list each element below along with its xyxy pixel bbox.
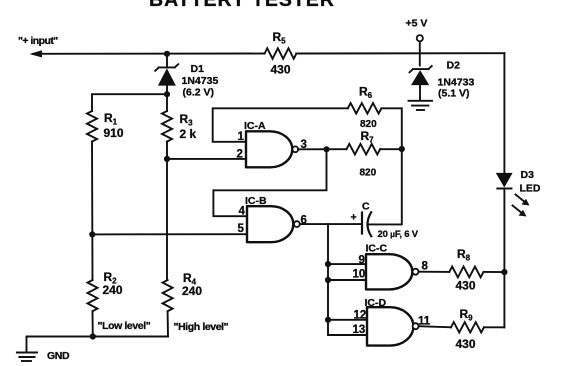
resistor R4 <box>163 280 173 311</box>
junction dot R8/LED <box>501 269 507 275</box>
svg-text:D2: D2 <box>447 60 461 72</box>
wire R9 right up to junction <box>484 326 504 328</box>
svg-text:IC-D: IC-D <box>365 297 387 309</box>
svg-text:IC-A: IC-A <box>244 120 266 132</box>
junction dot node X <box>399 146 405 152</box>
wire pin3 output <box>298 148 346 150</box>
junction dot pin3 <box>323 146 329 152</box>
svg-text:430: 430 <box>271 63 291 77</box>
wire pin1 lead and R6 loop riser <box>213 108 348 142</box>
diode D1 zener 1N4735 <box>155 64 178 85</box>
ground (D2) <box>409 101 433 110</box>
svg-text:"Low level": "Low level" <box>98 320 151 332</box>
wire +5V stem <box>419 42 421 66</box>
wire pin9 lead <box>328 263 366 265</box>
wire pin11 output <box>419 326 451 327</box>
svg-text:10: 10 <box>353 269 366 281</box>
gate IC-B nand <box>247 206 300 242</box>
wire LED cathode down to R8 junction and R9 corner <box>503 189 505 328</box>
svg-text:1N4735: 1N4735 <box>182 75 219 87</box>
resistor R7 <box>347 144 381 155</box>
svg-text:LED: LED <box>520 183 541 195</box>
svg-text:13: 13 <box>353 324 366 336</box>
diode D2 zener 1N4733 <box>410 66 432 100</box>
resistor R9 <box>451 322 484 332</box>
junction dot R1/R2 <box>89 231 95 237</box>
svg-text:(6.2 V): (6.2 V) <box>183 86 215 98</box>
wire pin12 lead <box>328 319 367 321</box>
wire feedback pin3 to pin4 <box>213 149 326 216</box>
svg-text:(5.1 V): (5.1 V) <box>438 88 470 100</box>
svg-text:240: 240 <box>103 283 123 297</box>
wire R6 right to node X <box>381 108 401 149</box>
resistor R3 <box>162 111 172 142</box>
wire pin8 output <box>419 271 450 273</box>
wire R2 bottom <box>92 312 94 337</box>
resistor R1 <box>87 111 97 142</box>
svg-text:+: + <box>351 212 357 224</box>
gate IC-C nand <box>366 254 419 289</box>
svg-text:20 μF, 6 V: 20 μF, 6 V <box>378 229 419 240</box>
svg-text:+5 V: +5 V <box>406 18 428 30</box>
junction dot R3 bottom <box>164 156 170 162</box>
junction dot pin10 <box>325 277 331 283</box>
svg-text:9: 9 <box>359 255 365 267</box>
svg-text:2: 2 <box>237 149 243 161</box>
junction dot D1 top <box>164 51 170 57</box>
capacitor C <box>362 212 371 236</box>
svg-text:IC-C: IC-C <box>366 243 388 255</box>
junction dot bottom rail <box>90 333 96 339</box>
svg-text:8: 8 <box>422 261 429 273</box>
svg-text:430: 430 <box>456 279 476 293</box>
wire pin2 <box>167 158 246 160</box>
wire R4 bottom <box>167 312 169 337</box>
wire to R1 branch <box>92 94 167 111</box>
svg-text:2 k: 2 k <box>180 127 197 141</box>
node +5V terminal <box>417 35 423 41</box>
ground GND <box>17 337 37 362</box>
svg-text:5: 5 <box>238 223 245 235</box>
junction dot pin12 <box>325 317 331 323</box>
svg-text:GND: GND <box>47 350 70 362</box>
LED light arrows <box>513 195 530 217</box>
svg-text:D3: D3 <box>521 169 535 181</box>
svg-text:240: 240 <box>182 284 202 298</box>
wire R3 bottom to R4 <box>166 142 168 280</box>
junction dot D1 bottom <box>164 91 170 97</box>
wire D1 branch vertical <box>166 54 168 111</box>
junction dot pin9 <box>325 261 331 267</box>
wire R1 bottom to R2 <box>91 142 94 280</box>
wire R8 right to LED line <box>484 271 505 273</box>
LED D3 <box>496 173 513 189</box>
wire right edge down to LED <box>503 53 505 172</box>
wire bottom ground rail <box>27 336 169 338</box>
gate IC-D nand <box>367 307 419 345</box>
wire input arrowhead <box>30 50 43 57</box>
svg-text:D1: D1 <box>191 63 205 75</box>
svg-text:BATTERY TESTER: BATTERY TESTER <box>149 0 335 11</box>
wire main top horizontal <box>33 52 504 55</box>
resistor R5 <box>265 48 297 59</box>
wire R7 right to node X <box>380 148 402 150</box>
svg-text:"High level": "High level" <box>174 321 229 333</box>
wire capacitor right to node X <box>368 149 402 224</box>
svg-text:820: 820 <box>360 168 377 179</box>
svg-text:IC-B: IC-B <box>245 195 267 207</box>
op... gate IC-A nand <box>246 131 298 167</box>
wire pin10 lead <box>328 279 366 281</box>
wire pin6 output to capacitor <box>300 223 362 225</box>
svg-text:"+ input": "+ input" <box>18 35 58 47</box>
resistor R2 <box>88 280 98 311</box>
resistor R8 <box>449 267 483 278</box>
svg-text:910: 910 <box>104 126 124 140</box>
wire pin5 <box>92 233 247 235</box>
svg-text:C: C <box>362 201 370 213</box>
wire input bus down to IC-C / IC-D <box>328 224 367 335</box>
svg-text:430: 430 <box>456 337 476 351</box>
resistor R6 <box>348 103 382 114</box>
svg-text:12: 12 <box>354 310 367 322</box>
svg-text:4: 4 <box>239 206 246 218</box>
